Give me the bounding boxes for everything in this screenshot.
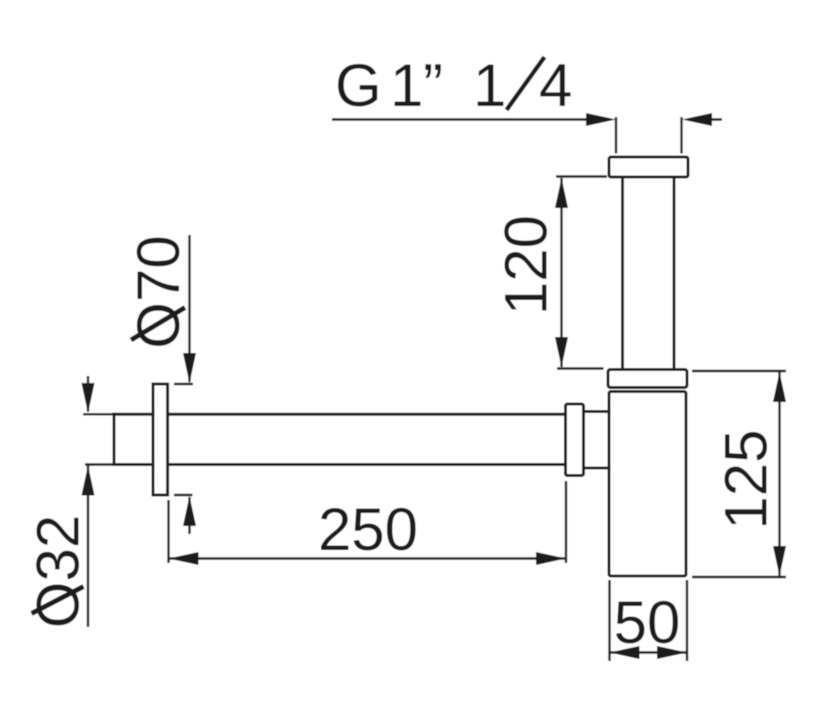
svg-text:G: G (335, 52, 382, 119)
svg-text:250: 250 (318, 496, 418, 563)
svg-text:120: 120 (493, 215, 560, 315)
svg-text:4: 4 (539, 52, 572, 119)
svg-text:1: 1 (390, 52, 423, 119)
svg-text:125: 125 (713, 429, 780, 529)
svg-text:50: 50 (614, 589, 681, 656)
svg-text:”: ” (423, 52, 443, 119)
svg-text:1: 1 (473, 52, 506, 119)
svg-text:O70: O70 (125, 235, 192, 348)
